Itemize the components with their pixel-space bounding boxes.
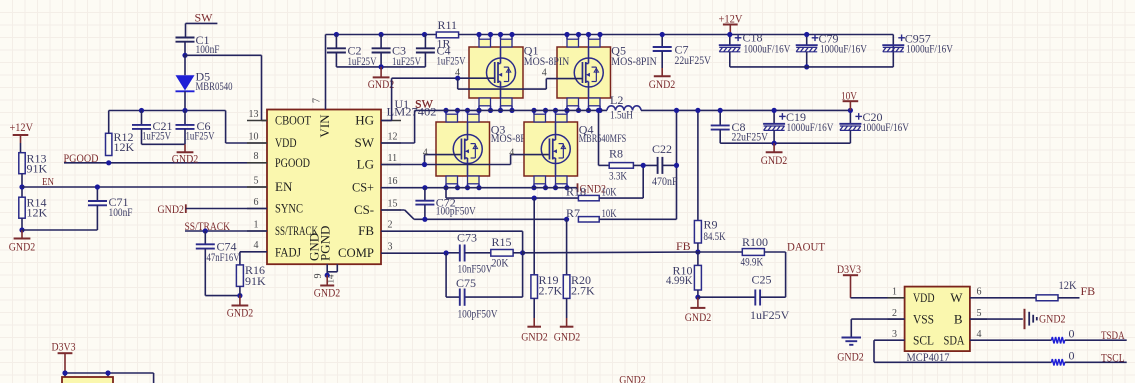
net port GND2 at PGND rail: [577, 183, 579, 192]
node junction R20 top branch: [564, 217, 569, 222]
node junction R18/R8: [641, 163, 646, 168]
capacitor C20: [849, 110, 851, 123]
ground GND2 below R16: [239, 296, 241, 306]
wire R15 right: [513, 252, 523, 254]
svg-text:GND2: GND2: [649, 77, 676, 91]
resistor R7: [578, 217, 599, 222]
svg-text:FADJ: FADJ: [275, 244, 301, 259]
op-amp U1 LM27402 body: [267, 110, 381, 265]
wire SW stub top-left: [186, 22, 218, 24]
resistor R16: [236, 265, 243, 287]
node junction R19 top branch: [532, 196, 537, 201]
node junction C79 bottom: [804, 64, 809, 69]
svg-text:LG: LG: [357, 157, 374, 172]
svg-text:HG: HG: [355, 113, 374, 128]
wire R7 right: [599, 218, 676, 220]
capacitor C72: [424, 188, 426, 201]
svg-text:15: 15: [388, 198, 398, 209]
node junction C3: [379, 32, 384, 37]
resistor R15: [491, 250, 513, 257]
svg-text:GND2: GND2: [368, 77, 395, 91]
wire Q1 gate to Q5 gate: [457, 78, 459, 89]
node junction R16 bottom: [237, 293, 242, 298]
diode D5 MBR0540: [176, 75, 195, 90]
svg-text:5: 5: [977, 308, 982, 319]
wire R19 gnd: [533, 298, 535, 318]
wire FB to R100: [698, 251, 742, 253]
svg-text:10nF50V: 10nF50V: [458, 262, 493, 276]
svg-text:2.7K: 2.7K: [539, 283, 563, 297]
resistor R10: [694, 265, 701, 290]
node junction D3V3 a: [62, 370, 67, 375]
capacitor C3: [380, 35, 382, 49]
wire R10 bottom: [697, 290, 699, 297]
svg-text:+12V: +12V: [10, 120, 34, 134]
resistor R13: [19, 153, 25, 174]
wire PGOOD: [64, 162, 267, 164]
svg-text:49.9K: 49.9K: [741, 255, 764, 269]
wire D3V3 bottom: [65, 372, 154, 374]
svg-text:22uF25V: 22uF25V: [675, 53, 712, 67]
wire C73 to R15: [465, 252, 491, 254]
svg-text:PGOOD: PGOOD: [275, 155, 310, 170]
node junction C74 top: [203, 228, 208, 233]
svg-text:470nF: 470nF: [652, 174, 678, 188]
transistor Q5 MOS-8PIN: [557, 47, 611, 98]
wire VDD rail: [109, 110, 226, 112]
svg-text:VDD: VDD: [275, 135, 297, 150]
wire FB line to node: [523, 251, 698, 254]
svg-text:1000uF/16V: 1000uF/16V: [820, 42, 867, 56]
svg-text:16: 16: [388, 176, 398, 187]
capacitor C71: [96, 187, 98, 201]
svg-text:1000uF/16V: 1000uF/16V: [906, 42, 953, 56]
wire CS+ lower line: [446, 197, 578, 199]
svg-text:100pF50V: 100pF50V: [436, 204, 476, 218]
svg-text:10K: 10K: [602, 185, 617, 199]
node junction C25 left: [695, 295, 700, 300]
wire CS- from pin: [381, 209, 405, 211]
resistor R8: [609, 163, 633, 169]
ground GND2 below C7: [661, 68, 663, 76]
svg-text:3: 3: [388, 242, 393, 253]
wire VOUT rail: [641, 109, 850, 111]
op-amp U MCP4017 body: [905, 287, 970, 352]
node junction C4: [422, 32, 427, 37]
svg-text:1uF25V: 1uF25V: [750, 308, 790, 322]
svg-text:R8: R8: [609, 146, 623, 160]
svg-text:D3V3: D3V3: [837, 262, 861, 276]
svg-text:SW: SW: [415, 97, 434, 111]
svg-text:EN: EN: [275, 179, 293, 194]
ground GND2 below C19: [773, 143, 775, 152]
node junction R8 drop: [596, 108, 601, 113]
capacitor C18: [729, 35, 731, 46]
svg-text:0: 0: [1069, 327, 1075, 341]
wire EN: [22, 186, 267, 188]
svg-text:4: 4: [542, 67, 547, 78]
transistor Q1 MOS-8PIN: [469, 47, 523, 98]
node junction C71 top: [95, 184, 100, 189]
svg-text:1000uF/16V: 1000uF/16V: [744, 42, 791, 56]
transistor Q4 MBR540MFS: [524, 122, 578, 176]
node junction FB corner: [520, 250, 525, 255]
svg-text:W: W: [950, 290, 963, 305]
svg-text:4: 4: [977, 329, 982, 340]
svg-text:1R: 1R: [437, 37, 451, 51]
ground GND2 below R14: [21, 230, 23, 239]
wire R16 bottom: [239, 286, 241, 295]
wire R18 right: [599, 197, 643, 199]
svg-text:20K: 20K: [492, 256, 509, 270]
svg-text:84.5K: 84.5K: [704, 229, 726, 243]
svg-text:7: 7: [312, 98, 323, 103]
svg-text:100nF: 100nF: [196, 42, 220, 56]
wire top rail left: [326, 34, 437, 36]
svg-text:D3V3: D3V3: [52, 340, 76, 354]
wire FADJ: [240, 251, 267, 253]
svg-text:11: 11: [388, 153, 398, 164]
svg-text:C25: C25: [752, 273, 772, 287]
svg-text:6: 6: [254, 197, 259, 208]
wire C1 to D5: [184, 55, 186, 75]
svg-text:1.5uH: 1.5uH: [610, 107, 633, 121]
capacitor C21: [141, 111, 143, 125]
svg-text:1: 1: [254, 219, 259, 230]
svg-text:GND2: GND2: [227, 306, 254, 320]
node junction C21 top: [139, 108, 144, 113]
svg-text:DAOUT: DAOUT: [787, 239, 826, 253]
wire CBOOT: [185, 54, 262, 56]
svg-text:MOS-8PIN: MOS-8PIN: [524, 54, 570, 68]
node junction C2: [334, 32, 339, 37]
wire R20 gnd: [566, 298, 568, 318]
svg-text:FB: FB: [1081, 284, 1096, 298]
svg-text:91K: 91K: [27, 162, 48, 176]
capacitor C2: [335, 35, 337, 49]
capacitor C19: [773, 110, 775, 123]
resistor R14: [19, 197, 25, 218]
svg-text:GND2: GND2: [685, 310, 712, 324]
svg-text:1: 1: [892, 287, 897, 298]
inductor L2: [606, 109, 608, 111]
pin 7 VIN stub: [325, 35, 327, 110]
resistor R11: [436, 32, 458, 38]
node junction C73/C75: [444, 250, 449, 255]
wire SS/TRACK: [185, 230, 267, 232]
node junction C8 top: [718, 108, 723, 113]
svg-text:3.3K: 3.3K: [609, 168, 627, 182]
resistor R 0 TSDA: [1052, 337, 1065, 343]
svg-text:MBR540MFS: MBR540MFS: [579, 131, 627, 145]
svg-text:C73: C73: [457, 230, 477, 244]
MCP4017 pin stubs: [888, 297, 905, 299]
ground GND2 earth at B: [1024, 309, 1026, 329]
transistor Q3 MOS-8PIN: [436, 122, 490, 176]
svg-text:2: 2: [388, 220, 393, 231]
svg-text:1uF25V: 1uF25V: [186, 128, 215, 142]
svg-text:GND2: GND2: [172, 152, 199, 166]
pin stub SYNC gnd port: [185, 204, 187, 213]
svg-text:FB: FB: [358, 223, 374, 238]
resistor R 0 TSCL: [1052, 359, 1065, 365]
wire R9 bottom: [697, 243, 699, 252]
node junction C6/D5: [182, 108, 187, 113]
svg-text:GND2: GND2: [619, 373, 646, 383]
wire R8 drop: [598, 110, 600, 165]
svg-text:R11: R11: [438, 18, 458, 32]
node junction C3 bottom: [379, 64, 384, 69]
wire R20 branch: [566, 219, 568, 274]
wire R12 top: [108, 111, 110, 134]
wire R10 top: [697, 252, 699, 265]
svg-text:0: 0: [1069, 349, 1075, 363]
svg-text:GND2: GND2: [521, 329, 548, 343]
svg-text:22uF25V: 22uF25V: [732, 130, 769, 144]
wire 12K to FB: [1058, 297, 1080, 299]
pin 9/14 stubs below U1: [326, 264, 328, 275]
resistor R100: [742, 249, 764, 256]
capacitor C957: [898, 37, 905, 39]
svg-text:3: 3: [892, 329, 897, 340]
svg-text:100pF50V: 100pF50V: [458, 306, 498, 320]
svg-text:B: B: [954, 311, 963, 326]
svg-text:2: 2: [892, 308, 897, 319]
svg-text:GND2: GND2: [554, 329, 581, 343]
capacitor C6: [184, 111, 186, 125]
svg-text:VSS: VSS: [913, 311, 934, 326]
svg-text:6: 6: [977, 287, 982, 298]
svg-text:4: 4: [423, 148, 428, 159]
capacitor C79: [806, 35, 808, 46]
svg-text:9: 9: [313, 274, 324, 279]
capacitor C73: [459, 245, 461, 262]
svg-text:GND2: GND2: [837, 349, 864, 363]
wire VSS MCP: [851, 318, 904, 320]
capacitor C8: [719, 110, 721, 125]
node junction D3V3 b: [105, 370, 110, 375]
svg-text:4: 4: [254, 240, 259, 251]
node junction C72 bottom: [422, 217, 427, 222]
svg-text:GND2: GND2: [9, 240, 36, 254]
ground GND2 below U1: [326, 275, 328, 285]
wire DAOUT: [764, 251, 785, 253]
wire VDD MCP: [851, 297, 905, 299]
svg-text:MBR0540: MBR0540: [196, 79, 233, 93]
svg-text:1uF25V: 1uF25V: [437, 54, 466, 68]
wire R14 to GND: [21, 218, 23, 230]
wire C74 bottom: [205, 295, 240, 297]
resistor R12: [106, 133, 112, 155]
svg-text:C75: C75: [456, 276, 476, 290]
resistor R18: [578, 195, 599, 200]
svg-text:2.7K: 2.7K: [571, 283, 595, 297]
resistor R9: [694, 221, 701, 244]
svg-text:GND2: GND2: [1039, 311, 1066, 325]
svg-text:4.99K: 4.99K: [666, 273, 693, 287]
wire C21-C6 bottom: [142, 143, 186, 145]
wire SW pin to rail: [381, 142, 415, 144]
svg-text:91K: 91K: [245, 274, 266, 288]
capacitor C1: [184, 37, 187, 39]
svg-text:CS-: CS-: [354, 202, 374, 217]
svg-text:8: 8: [254, 151, 259, 162]
wire LG to gates: [381, 164, 425, 166]
wire FB pin: [381, 230, 523, 232]
svg-text:10K: 10K: [602, 206, 617, 220]
node junction PGND: [325, 273, 330, 278]
wire SDA MCP: [970, 339, 1052, 341]
ground GND2 below C6: [184, 144, 186, 152]
svg-text:GND2: GND2: [158, 202, 185, 216]
op-amp U1 pin stubs: [247, 120, 267, 122]
svg-text:SYNC: SYNC: [275, 201, 303, 216]
node junction C18 top: [727, 32, 732, 37]
wire elcap bottom rail: [730, 66, 894, 68]
wire +12V top rail: [459, 34, 894, 36]
wire R19 branch: [533, 198, 535, 275]
ground GND2 earth below VSS: [842, 337, 862, 339]
wire TSDA: [1065, 339, 1127, 341]
svg-text:TSDA: TSDA: [1101, 328, 1125, 342]
svg-text:4: 4: [509, 148, 514, 159]
wire W to 12K: [970, 297, 1036, 299]
op-amp U bottom partial body: [62, 377, 113, 383]
svg-text:C22: C22: [652, 142, 672, 156]
ground GND2 below R10: [697, 297, 699, 308]
svg-text:1uF25V: 1uF25V: [348, 54, 377, 68]
node junction EN: [19, 184, 24, 189]
svg-text:VDD: VDD: [913, 290, 935, 305]
wire B MCP: [970, 318, 1023, 320]
capacitor C7: [661, 35, 663, 48]
wire C8 C20 bottom rail: [720, 142, 850, 144]
ground GND2 below C3: [380, 67, 382, 78]
node junction C72 top: [422, 185, 427, 190]
svg-text:PGND: PGND: [318, 226, 333, 261]
svg-text:COMP: COMP: [338, 245, 374, 260]
ground GND2 below R19: [533, 318, 535, 327]
svg-text:CS+: CS+: [352, 180, 374, 195]
node junction Q1 gate: [455, 76, 460, 81]
svg-text:GND2: GND2: [761, 153, 788, 167]
wire SW rail: [415, 109, 607, 111]
svg-text:L2: L2: [610, 93, 623, 107]
svg-text:1000uF/16V: 1000uF/16V: [862, 120, 909, 134]
capacitor C4: [424, 35, 426, 49]
svg-text:SW: SW: [355, 135, 375, 150]
svg-text:GND2: GND2: [314, 285, 341, 299]
svg-text:R15: R15: [492, 235, 512, 249]
svg-text:12K: 12K: [1059, 278, 1077, 292]
node junction LG branch: [422, 162, 427, 167]
node junction CS- rail: [674, 108, 679, 113]
wire C75 loop: [445, 253, 447, 297]
svg-text:SDA: SDA: [944, 333, 965, 348]
svg-text:SCL: SCL: [913, 333, 934, 348]
resistor R19: [531, 275, 538, 299]
svg-text:VIN: VIN: [317, 114, 332, 138]
svg-text:SW: SW: [195, 11, 214, 25]
svg-text:1000uF/16V: 1000uF/16V: [787, 120, 834, 134]
wire R13-R14: [21, 174, 23, 198]
svg-text:1uF25V: 1uF25V: [142, 128, 171, 142]
wire CS+ PGND rail: [381, 187, 578, 189]
wire C71 bottom: [22, 229, 97, 231]
capacitor C25: [698, 296, 755, 298]
svg-text:R7: R7: [566, 206, 580, 220]
wire HG to Q1 gate: [381, 120, 392, 122]
node junction C7: [660, 32, 665, 37]
svg-text:13: 13: [249, 109, 259, 120]
svg-text:FB: FB: [676, 239, 691, 253]
capacitor C75: [459, 289, 461, 306]
resistor R20: [563, 275, 570, 299]
wire TSCL: [1065, 361, 1127, 363]
node junction C19 bottom: [772, 141, 777, 146]
svg-text:TSCL: TSCL: [1101, 350, 1125, 364]
node junction R12 bottom: [106, 160, 111, 165]
node junction C79 top: [804, 32, 809, 37]
wire R9 feed: [697, 110, 699, 220]
wire caps bottom rail: [336, 66, 425, 68]
svg-text:47nF16V: 47nF16V: [207, 250, 240, 264]
svg-text:10: 10: [249, 131, 259, 142]
capacitor C74: [204, 231, 206, 244]
svg-text:R18: R18: [566, 185, 586, 199]
svg-text:1uF25V: 1uF25V: [392, 54, 421, 68]
node junction C20 top: [848, 108, 853, 113]
svg-text:12K: 12K: [27, 206, 48, 220]
resistor 12K: [1036, 295, 1058, 301]
svg-text:5: 5: [254, 175, 259, 186]
svg-text:12K: 12K: [114, 140, 135, 154]
node junction R9 rail: [695, 108, 700, 113]
node junction C1/CBOOT: [182, 53, 187, 58]
node junction C19 top: [772, 108, 777, 113]
node junction GND2 left: [19, 227, 24, 232]
svg-text:MOS-8PIN: MOS-8PIN: [611, 54, 657, 68]
wire PGND to R18 line: [445, 188, 447, 198]
node junction C22 right: [674, 163, 679, 168]
svg-text:CBOOT: CBOOT: [275, 113, 311, 128]
capacitor C22: [633, 164, 657, 166]
wire SCL MCP: [874, 339, 905, 341]
svg-text:R100: R100: [742, 235, 768, 249]
svg-text:12: 12: [388, 131, 398, 142]
wire COMP: [381, 252, 446, 254]
ground GND2 below R20: [566, 318, 568, 327]
node junction FB: [695, 249, 700, 254]
svg-text:100nF: 100nF: [109, 205, 133, 219]
